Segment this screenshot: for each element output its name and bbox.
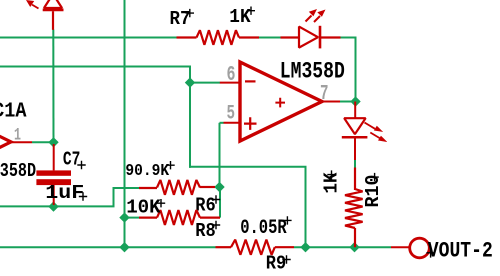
wire net segment between R7 and LED D2 [259,37,281,39]
wire net y37 horizontal from left edge [0,37,177,39]
capacitor C7 [36,144,71,205]
LED D1 partial at top-left [26,0,64,30]
plus marker pin5 [244,117,257,130]
resistor R7 [177,30,260,45]
svg-text:7: 7 [320,83,329,106]
op-amp IC1B triangle [240,62,322,141]
LED D2 horizontal [281,9,341,48]
LED D3 vertical [342,102,388,161]
origin cross C7 [77,161,85,169]
svg-text:5: 5 [227,102,236,125]
wire opamp output pin7 green [340,101,356,103]
minus marker pin6 [245,80,256,82]
junction dot bottom/x305 [300,242,310,252]
op-amp IC1A tip at left edge [0,135,11,150]
svg-text:6: 6 [227,63,236,87]
wire net y66 horizontal from left edge [0,66,191,68]
wire pin6 branch y82.6 [190,82,220,84]
wire pin5 corner and vertical down to R6 node [220,122,224,124]
svg-text:0.05R: 0.05R [240,217,287,240]
origin cross 1K [247,7,255,15]
pin 6 lead red [220,82,240,84]
svg-text:1uF: 1uF [45,182,84,204]
wire vertical x124.5 full height [124,0,126,247]
origin cross 1K rotated [327,170,335,178]
origin cross R9 [282,255,290,263]
svg-text:1: 1 [14,126,21,146]
origin cross 10K [157,199,165,207]
origin cross 0.05R [283,216,291,224]
junction dot IC1A output node [48,137,58,147]
junction dot pin5/R6 node [214,182,224,192]
wire LED3 to R10 short green [354,160,356,168]
svg-text:R7: R7 [170,8,191,30]
junction dot R8 left / x124 vertical [119,212,129,222]
wire vertical x220 from R6 node down to R8 lead [219,187,221,218]
svg-text:10K: 10K [126,196,161,218]
svg-text:R10: R10 [362,175,384,208]
wire vertical x305 from y167 down to bottom net [305,167,307,247]
origin cross VOUT-2 [426,248,434,258]
svg-text:1K: 1K [229,6,251,28]
origin cross 1uF [79,192,87,200]
origin cross opamp (red plus) [275,98,285,108]
origin cross R10 rotated [370,173,378,181]
resistor R6 [139,180,215,195]
origin cross R7 [186,9,194,17]
wire horizontal y167 from x190 to x305 [189,166,307,168]
origin cross R6 [212,195,220,203]
svg-text:C7: C7 [63,149,81,171]
svg-text:R8: R8 [195,220,216,242]
svg-text:VOUT-2: VOUT-2 [428,239,493,264]
terminal VOUT-2 [391,246,410,248]
junction dot output/LED3 [350,96,360,106]
wire R8 left lead green from x124 node [125,217,140,219]
pin 5 lead red [224,122,241,124]
junction dot bottom/R10 [349,242,359,252]
pin 1 output lead red [11,141,32,143]
junction dot bottom/x124 [119,242,129,252]
wire vertical x190 from y66 down to y167 [189,67,191,168]
resistor R8 [139,210,220,225]
resistor R9 [216,240,295,255]
wire bottom net y246.5 right section [294,246,391,248]
origin cross R8 [212,221,220,229]
svg-text:90.9K: 90.9K [125,161,169,180]
wire horizontal y207 from left edge, corner up at x112.5 to R6 lead [0,188,139,206]
svg-text:IC1A: IC1A [0,100,27,123]
junction dot pin6 branch [185,77,195,87]
origin cross 90.9K [166,161,174,169]
wire IC1A output green [32,141,54,143]
resistor R10 vertical [345,168,363,248]
svg-text:R9: R9 [266,253,287,275]
svg-text:LM358D: LM358D [0,160,36,182]
pin 7 output lead red [322,101,340,103]
wire bottom net y246.5 left section [0,246,216,248]
svg-text:LM358D: LM358D [280,59,345,85]
junction dot C7 bottom [48,201,58,211]
wire LED2 to opamp output corner [341,38,356,102]
wire vertical x53 from LED1 down to node [52,30,54,143]
